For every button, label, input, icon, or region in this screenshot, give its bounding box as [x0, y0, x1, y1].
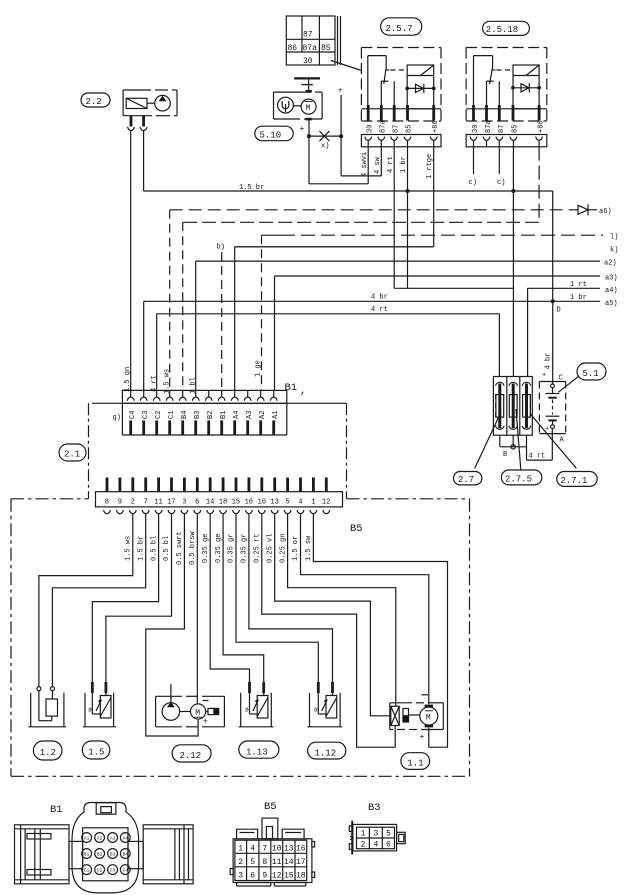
svg-text:16: 16 — [245, 499, 253, 507]
svg-text:1 br: 1 br — [400, 156, 408, 173]
svg-text:A: A — [560, 437, 565, 445]
B1 pin bars — [131, 420, 274, 435]
svg-text:2.7: 2.7 — [458, 475, 474, 485]
wire 5.10 motor plus down to splice — [308, 120, 310, 136]
wire relay2 pin87 stub c) — [498, 147, 500, 174]
relay pinout legend box — [286, 16, 340, 66]
svg-text:A2: A2 — [97, 835, 103, 841]
svg-text:13: 13 — [270, 499, 278, 507]
svg-text:0.5 bl: 0.5 bl — [163, 536, 171, 561]
relay 2.5.18 coil with diode — [511, 65, 541, 109]
svg-text:B1: B1 — [220, 411, 228, 419]
svg-text:85: 85 — [406, 125, 414, 133]
oval label 1.12 — [308, 742, 346, 759]
svg-text:1.5 sw: 1.5 sw — [305, 535, 313, 561]
svg-text:b): b) — [217, 244, 225, 252]
svg-text:1.5 br: 1.5 br — [137, 536, 145, 561]
svg-text:M: M — [426, 713, 431, 722]
svg-text:1 bl: 1 bl — [190, 377, 198, 394]
svg-text:12: 12 — [322, 499, 330, 507]
svg-text:0.5 swrt: 0.5 swrt — [176, 531, 184, 565]
svg-text:1.5 gn: 1.5 gn — [124, 367, 132, 392]
svg-text:87a: 87a — [303, 44, 318, 53]
svg-text:ϑ: ϑ — [88, 707, 92, 714]
oval label 2.7 with leader — [454, 413, 501, 485]
svg-text:9: 9 — [118, 499, 122, 507]
B1 socket cups — [127, 390, 277, 400]
battery 5.1 — [539, 353, 565, 445]
svg-text:B1: B1 — [50, 804, 63, 816]
svg-text:15: 15 — [232, 499, 240, 507]
svg-text:1 rtge: 1 rtge — [426, 154, 434, 179]
svg-text:4: 4 — [298, 499, 302, 507]
svg-text:B3: B3 — [194, 411, 202, 419]
svg-text:4: 4 — [250, 845, 255, 854]
svg-text:1.1: 1.1 — [407, 759, 423, 769]
svg-text:D: D — [557, 307, 561, 315]
oval label 2.7.5 with leader — [501, 409, 541, 485]
svg-text:85: 85 — [512, 125, 520, 133]
svg-text:C1: C1 — [84, 867, 90, 873]
svg-text:6: 6 — [250, 871, 255, 880]
wire 2.2 right pin down to 1.5 br line — [143, 131, 145, 191]
svg-text:3: 3 — [182, 499, 186, 507]
svg-text:a3): a3) — [605, 275, 618, 283]
svg-text:1: 1 — [311, 499, 315, 507]
svg-text:0.35 gr: 0.35 gr — [228, 534, 236, 563]
svg-text:18: 18 — [296, 871, 306, 880]
svg-text:86: 86 — [288, 44, 298, 53]
svg-text:0.25 rt: 0.25 rt — [254, 534, 262, 563]
relay 2.5.7 pin designations — [367, 120, 441, 133]
2.2 pin stubs and sockets — [128, 116, 147, 131]
svg-text:0.35 gr: 0.35 gr — [241, 534, 249, 563]
svg-text:4: 4 — [373, 841, 378, 850]
connector view B1 pin circles — [82, 833, 131, 875]
svg-text:a6): a6) — [599, 208, 612, 216]
fuse 2.7.5 element — [509, 382, 518, 429]
svg-text:+: + — [420, 733, 425, 742]
svg-text:11: 11 — [154, 499, 162, 507]
svg-text:C2: C2 — [97, 867, 103, 873]
wire B1 A2 dashed up to l line — [261, 235, 263, 390]
svg-text:B2: B2 — [97, 851, 103, 857]
wire 4 rt line to fuse1 — [157, 306, 500, 376]
fuse 2.7.1 element — [522, 382, 531, 429]
svg-text:2: 2 — [238, 858, 243, 867]
svg-text:+: + — [542, 372, 546, 380]
svg-text:2.7.5: 2.7.5 — [505, 475, 532, 485]
oval label 2.1 — [59, 444, 86, 461]
wire relay2 pin30 stub c) — [473, 147, 475, 174]
wire B1 B4 dashed up to relay2 86 line — [182, 222, 184, 390]
svg-text:10: 10 — [258, 499, 266, 507]
svg-text:87: 87 — [393, 125, 401, 133]
svg-text:A4: A4 — [233, 411, 241, 419]
svg-text:17: 17 — [296, 858, 306, 867]
svg-text:87a: 87a — [380, 120, 388, 133]
component 2.2 sensor with gauge — [123, 90, 177, 116]
svg-text:2.12: 2.12 — [180, 751, 202, 761]
svg-text:c): c) — [469, 179, 477, 187]
svg-text:3: 3 — [238, 871, 243, 880]
svg-text:4 br: 4 br — [371, 294, 388, 302]
wire B5 pin15 to 1.12 left — [236, 514, 318, 682]
oval label 1.2 — [33, 741, 62, 760]
wire B1 C1 dashed up to a6 line — [169, 210, 171, 391]
svg-text:A4: A4 — [123, 835, 129, 841]
svg-text:A1: A1 — [84, 835, 90, 841]
wire a3 line — [275, 275, 618, 283]
svg-text:C: C — [559, 375, 563, 383]
svg-text:13: 13 — [284, 845, 294, 854]
relay 2.5.18 dashed housing — [466, 48, 547, 122]
oval label 1.1 — [401, 753, 430, 770]
svg-text:M: M — [195, 709, 200, 718]
wire B5 pin3 to 2.12 motor minus — [146, 514, 198, 736]
component 1.1 valve and motor unit — [390, 695, 444, 742]
wire B1 C2 up to 4rt line — [156, 314, 158, 391]
svg-text:1: 1 — [361, 829, 366, 838]
wire 2.2 left pin down to B1 pin C4 (1.5 gn) — [130, 131, 132, 391]
relay 2.5.7 coil with diode — [405, 65, 435, 109]
svg-text:2.1: 2.1 — [64, 450, 80, 460]
svg-text:10: 10 — [272, 845, 282, 854]
wire 2.12 gauge stub — [170, 684, 172, 703]
svg-text:g): g) — [113, 414, 121, 422]
oval label 2.7.1 with leader — [530, 414, 597, 487]
relay 2.5.7 switch contacts — [368, 56, 407, 109]
svg-text:1 br: 1 br — [570, 294, 587, 302]
component 1.12 temperature sensor — [307, 682, 342, 727]
unit 2.1 boundary dash-dot left — [88, 403, 90, 499]
svg-text:B4: B4 — [181, 411, 189, 419]
wire B5 pin5 to 1.1 valve top — [288, 514, 396, 707]
svg-text:B5: B5 — [350, 523, 363, 535]
svg-text:A2: A2 — [259, 411, 267, 419]
oval label 2.5.7 — [381, 18, 422, 35]
wire B1 B3 up to a2 line — [195, 261, 197, 390]
wire B5 pin13 to 1.1 valve left — [275, 514, 391, 716]
svg-text:11: 11 — [272, 858, 282, 867]
relay 2.5.18 switch contacts — [474, 56, 514, 109]
relay 2.5.7 pin bars — [368, 105, 434, 121]
svg-text:87: 87 — [303, 31, 313, 40]
svg-text:15: 15 — [284, 871, 294, 880]
oval label 1.5 — [82, 741, 110, 759]
svg-text:85: 85 — [321, 44, 331, 53]
svg-text:87: 87 — [498, 125, 506, 133]
relay 2.5.18 socket strip — [466, 135, 547, 147]
svg-text:3: 3 — [373, 829, 378, 838]
svg-text:5: 5 — [285, 499, 289, 507]
wire relay1 pin87a to splice x — [341, 136, 381, 176]
wire fuse3 feed vertical — [527, 288, 529, 376]
svg-text:12: 12 — [272, 871, 282, 880]
svg-text:17: 17 — [167, 499, 175, 507]
svg-text:2.5.7: 2.5.7 — [386, 24, 413, 34]
svg-text:4 rt: 4 rt — [371, 306, 388, 314]
svg-text:x): x) — [321, 143, 329, 151]
ground symbol above 5.10 — [294, 78, 320, 90]
oval label 2.5.18 — [483, 21, 530, 35]
oval label 1.13 — [239, 741, 279, 758]
svg-text:B1: B1 — [84, 851, 90, 857]
oval label 2.2 — [81, 93, 110, 107]
svg-text:87a: 87a — [485, 120, 493, 133]
svg-text:a4): a4) — [605, 287, 618, 295]
svg-text:4 rt: 4 rt — [529, 453, 546, 461]
splice line with x symbol — [307, 131, 343, 150]
wire B5 pin17 to 1.5 right — [106, 514, 172, 682]
B1 pin designations — [129, 411, 280, 419]
svg-text:a5): a5) — [605, 300, 618, 308]
component 5.10 washer pump — [274, 90, 323, 120]
svg-text:5: 5 — [386, 829, 391, 838]
wire relay2 pin86 dashed down and left — [183, 147, 539, 223]
svg-text:ϑ: ϑ — [314, 707, 318, 714]
svg-text:1.5: 1.5 — [88, 748, 104, 758]
connector view B5 housing — [230, 818, 314, 886]
svg-text:0.35 ge: 0.35 ge — [215, 534, 223, 563]
big component box dash-dot boundary — [11, 499, 470, 777]
B5 pin bars top — [107, 478, 326, 492]
svg-text:A3: A3 — [110, 835, 116, 841]
B5 socket cups below — [104, 510, 330, 514]
relay 2.5.7 wire labels — [361, 152, 434, 179]
svg-text:+: + — [338, 87, 343, 96]
component 1.5 temperature sensor — [83, 682, 116, 727]
svg-text:C2: C2 — [155, 411, 163, 419]
wire D vertical to battery — [553, 191, 561, 384]
svg-text:5: 5 — [250, 858, 255, 867]
wire a5 / 4 br line — [144, 294, 618, 308]
svg-text:2: 2 — [361, 841, 366, 850]
junction dot relay1 pin85 on 1.5br — [406, 189, 410, 193]
svg-text:2.2: 2.2 — [86, 97, 102, 107]
oval label 5.10 — [255, 126, 293, 141]
junction dot relay2 pin85 on 1.5br — [511, 189, 515, 193]
svg-text:8: 8 — [262, 858, 267, 867]
oval label 5.1 with leader — [558, 363, 606, 392]
svg-text:4 rt: 4 rt — [151, 375, 159, 392]
svg-text:0.5 bl: 0.5 bl — [150, 536, 158, 561]
relay 2.5.18 pin bars — [474, 105, 540, 121]
svg-text:+86: +86 — [538, 120, 546, 133]
relay 2.5.18 pin designations — [472, 120, 546, 133]
wire B1 pin B1 dashed stub b) — [217, 244, 225, 391]
svg-text:8: 8 — [105, 499, 109, 507]
wire relay2 pin85 down to fuse2 — [512, 147, 514, 377]
leader line legend to relay 2.5.7 — [331, 61, 361, 71]
connector view B1 round housing — [72, 803, 139, 893]
svg-text:1: 1 — [238, 845, 243, 854]
wire B5 pin10 to 1.1 valve bottom — [262, 514, 395, 747]
svg-text:B3: B3 — [110, 851, 116, 857]
svg-text:2.7.1: 2.7.1 — [560, 476, 587, 486]
svg-text:6: 6 — [195, 499, 199, 507]
svg-text:C3: C3 — [142, 411, 150, 419]
component 1.13 temperature sensor — [239, 682, 274, 727]
svg-text:+: + — [203, 718, 208, 727]
wire 1.5 br horizontal line — [144, 190, 553, 192]
svg-text:2: 2 — [131, 499, 135, 507]
svg-text:B: B — [503, 451, 507, 459]
wire B5 pin1 to 1.1 motor plus — [313, 514, 447, 747]
wire a2 line — [196, 260, 617, 268]
svg-text:18: 18 — [219, 499, 227, 507]
svg-text:B1: B1 — [285, 382, 298, 394]
wire a6 dashed line — [170, 209, 570, 211]
svg-text:A3: A3 — [246, 411, 254, 419]
svg-text:1.5 br: 1.5 br — [239, 184, 264, 192]
connector B1 block — [92, 382, 347, 435]
oval label 2.12 — [172, 745, 211, 762]
wire B1 A1 up to a3 line — [274, 276, 276, 390]
svg-text:0.25 gn: 0.25 gn — [279, 534, 287, 563]
diode a6 — [570, 204, 612, 216]
B1 wire labels above connector — [124, 360, 263, 394]
component 2.12 washer pump unit — [156, 696, 225, 727]
connector view B1 right block — [128, 825, 193, 884]
wire relay1 pin85 to 1.5br and down — [407, 147, 409, 288]
connector B5 block — [96, 492, 363, 535]
svg-text:5.10: 5.10 — [260, 130, 282, 140]
wire B5 pin14 to 1.13 left — [210, 514, 249, 682]
battery plus stub above splice — [338, 87, 343, 137]
svg-text:C1: C1 — [168, 411, 176, 419]
svg-text:14: 14 — [206, 499, 214, 507]
svg-text:9: 9 — [262, 871, 267, 880]
svg-text:1.2: 1.2 — [40, 748, 56, 758]
svg-text:C4: C4 — [129, 411, 137, 419]
svg-text:A1: A1 — [272, 411, 280, 419]
svg-text:2.5.18: 2.5.18 — [486, 25, 518, 35]
wire B1 A4 up to k line — [234, 247, 236, 391]
wire B5 pin18 to 1.13 right — [223, 514, 264, 682]
wire B1 C3 up to 4br line — [143, 301, 145, 390]
wire B5 pin16 to 1.12 right — [249, 514, 333, 682]
connector view B5 grid — [235, 840, 307, 880]
component 1.2 — [29, 687, 67, 727]
svg-text:+86: +86 — [432, 120, 440, 133]
svg-text:,: , — [300, 385, 306, 397]
svg-text:ϑ: ϑ — [245, 707, 249, 714]
wire relay1 pin87 down to fuse 2 feed — [394, 147, 513, 288]
B5 wire labels below connector — [125, 531, 314, 565]
fuse box 2.7 group — [493, 377, 532, 436]
wire l dashed line — [262, 234, 619, 242]
svg-text:C3: C3 — [110, 867, 116, 873]
svg-text:1.5 ws: 1.5 ws — [125, 536, 133, 561]
svg-text:1.12: 1.12 — [315, 748, 337, 758]
wire B5 pin4 to 1.1 motor top — [301, 514, 429, 705]
svg-text:l): l) — [610, 234, 618, 242]
unit 2.1 boundary dash-dot right — [346, 403, 348, 499]
connector view B1 left block — [15, 825, 83, 884]
svg-text:1.5 or: 1.5 or — [292, 536, 300, 561]
svg-text:0.35 ge: 0.35 ge — [202, 534, 210, 563]
svg-text:B2: B2 — [207, 411, 215, 419]
B5 pin numbers — [105, 499, 331, 507]
svg-text:6: 6 — [386, 841, 391, 850]
wire B5 pin6 to 2.12 motor top — [196, 514, 198, 704]
svg-text:16: 16 — [296, 845, 306, 854]
svg-text:7: 7 — [144, 499, 148, 507]
wire B5 pin2 to 1.2 left — [39, 514, 133, 687]
svg-text:14: 14 — [284, 858, 294, 867]
connector view B3 housing — [349, 821, 405, 855]
svg-text:30: 30 — [303, 57, 313, 66]
svg-text:M: M — [306, 104, 311, 113]
svg-text:30: 30 — [472, 125, 480, 133]
wire B5 pin7 to 1.2 right — [52, 514, 145, 687]
relay 2.5.7 dashed housing — [361, 48, 441, 122]
svg-text:30: 30 — [367, 125, 375, 133]
svg-text:0.5 brsw: 0.5 brsw — [189, 531, 197, 565]
wire relay1 pin86 down to k line corner — [235, 147, 434, 247]
svg-text:1.13: 1.13 — [246, 748, 268, 758]
svg-text:7: 7 — [262, 845, 267, 854]
wire relay1 pin30 to motor 5.10 minus — [309, 136, 368, 184]
wire a4 / 1 rt line right segment — [528, 281, 618, 295]
svg-text:1 rt: 1 rt — [570, 281, 587, 289]
wire B5 pin11 to 1.5 left — [92, 514, 158, 682]
svg-text:k): k) — [610, 247, 618, 255]
svg-text:c): c) — [497, 179, 505, 187]
svg-text:B3: B3 — [368, 802, 381, 814]
svg-text:0.25 vl: 0.25 vl — [266, 534, 274, 563]
svg-text:4 br: 4 br — [545, 353, 553, 370]
svg-text:+: + — [300, 125, 305, 134]
svg-text:B5: B5 — [264, 801, 277, 813]
wire k line — [235, 247, 619, 255]
fuse bottom bus — [500, 428, 553, 460]
relay 2.5.7 socket strip — [361, 135, 441, 147]
svg-text:a2): a2) — [604, 260, 617, 268]
svg-text:5.1: 5.1 — [583, 369, 599, 379]
fuse 2.7 element — [496, 382, 505, 429]
